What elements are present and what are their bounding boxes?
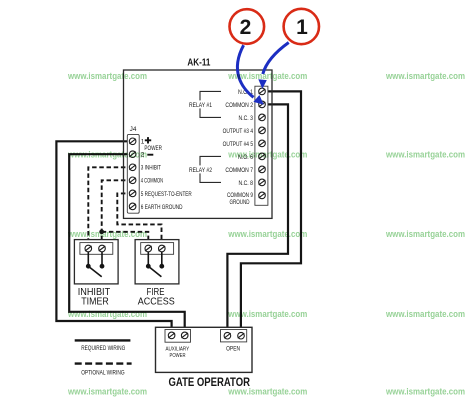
- J4 pin 5 screw: [129, 190, 136, 197]
- relay pin 9 screw: [259, 192, 266, 199]
- watermark row 4: [67, 309, 465, 319]
- svg-text:N.C. 8: N.C. 8: [239, 180, 254, 187]
- blue arrow from callout 2 to COMMON 2 terminal: [237, 45, 263, 105]
- relay pin 4 screw: [259, 127, 266, 134]
- svg-text:www.ismartgate.com: www.ismartgate.com: [67, 229, 147, 239]
- blue arrow from callout 1 to N.O. 1 terminal: [258, 43, 288, 89]
- wire W2: relay COMMON 2 to gate operator OPEN left terminal: [227, 104, 288, 335]
- svg-text:www.ismartgate.com: www.ismartgate.com: [385, 149, 465, 159]
- svg-text:www.ismartgate.com: www.ismartgate.com: [385, 71, 465, 81]
- relay pin 1 screw: [259, 88, 266, 95]
- callout circle 1: [284, 9, 319, 44]
- svg-text:www.ismartgate.com: www.ismartgate.com: [385, 386, 465, 396]
- FIRE ACCESS label: [138, 287, 175, 308]
- relay pin 5 screw: [259, 140, 266, 147]
- terminal strip J4: [127, 134, 139, 213]
- svg-text:www.ismartgate.com: www.ismartgate.com: [385, 309, 465, 319]
- svg-text:OUTPUT #3 4: OUTPUT #3 4: [223, 128, 254, 135]
- AK-11 enclosure box: [124, 70, 273, 218]
- svg-text:ACCESS: ACCESS: [138, 297, 175, 308]
- INHIBIT TIMER box: [74, 240, 118, 284]
- relay pin 3 screw: [259, 114, 266, 121]
- relay pin 9 label COMMON 9 GROUND: [227, 192, 253, 206]
- relay pin 2 screw: [259, 101, 266, 108]
- dashed wire D1: J4 pin3 INHIBIT to INHIBIT TIMER left terminal: [88, 167, 132, 248]
- FIRE ACCESS switch contacts: [146, 264, 151, 269]
- dashed wire D2: J4 pin4 COMMON to INHIBIT TIMER right terminal: [102, 180, 133, 248]
- svg-text:J4: J4: [130, 126, 137, 133]
- svg-text:REQUIRED WIRING: REQUIRED WIRING: [81, 345, 125, 352]
- dashed wire D2a: branch from junction to FIRE ACCESS left terminal: [102, 232, 149, 249]
- AUXILIARY POWER left screw: [168, 332, 175, 339]
- legend required-wiring sample line: [75, 339, 131, 341]
- relay #2 label: [186, 165, 213, 174]
- J4 pin 2 screw: [129, 151, 136, 158]
- relay pin 6 screw: [259, 153, 266, 160]
- AUXILIARY POWER label: [166, 347, 190, 360]
- wire W3: J4 pin1 +POWER to AUXILIARY POWER left terminal: [56, 141, 171, 335]
- GATE OPERATOR box: [156, 327, 253, 372]
- INHIBIT TIMER right terminal screw: [99, 245, 106, 252]
- svg-text:5 REQUEST-TO-ENTER: 5 REQUEST-TO-ENTER: [141, 191, 192, 198]
- relay #1 label: [186, 100, 213, 109]
- OPEN terminal strip: [221, 330, 247, 342]
- svg-text:COMMON 2: COMMON 2: [225, 102, 253, 109]
- svg-text:www.ismartgate.com: www.ismartgate.com: [67, 309, 147, 319]
- FIRE ACCESS right terminal screw: [159, 245, 166, 252]
- svg-text:OPEN: OPEN: [226, 346, 240, 353]
- svg-text:www.ismartgate.com: www.ismartgate.com: [227, 386, 307, 396]
- svg-text:www.ismartgate.com: www.ismartgate.com: [67, 149, 147, 159]
- svg-text:COMMON 7: COMMON 7: [225, 167, 253, 174]
- wire W1: relay N.O.1 to gate operator OPEN right terminal: [241, 91, 301, 335]
- svg-text:6 EARTH GROUND: 6 EARTH GROUND: [141, 204, 183, 211]
- INHIBIT TIMER switch stems: [88, 252, 102, 267]
- svg-text:RELAY #1: RELAY #1: [189, 102, 212, 109]
- INHIBIT TIMER terminal strip: [80, 243, 113, 255]
- FIRE ACCESS switch blade: [148, 266, 161, 277]
- svg-text:www.ismartgate.com: www.ismartgate.com: [227, 149, 307, 159]
- legend optional-wiring sample line: [75, 362, 132, 364]
- AUXILIARY POWER right screw: [181, 332, 188, 339]
- relay #1 bracket: [200, 91, 221, 117]
- svg-text:RELAY #2: RELAY #2: [189, 167, 212, 174]
- svg-text:3 INHIBIT: 3 INHIBIT: [141, 165, 161, 172]
- svg-text:GROUND: GROUND: [230, 199, 250, 206]
- J4 pin 6 screw: [129, 203, 136, 210]
- svg-text:OUTPUT #4 5: OUTPUT #4 5: [223, 141, 254, 148]
- INHIBIT TIMER label: [78, 287, 111, 308]
- J4 pin 2 label (-): [141, 152, 154, 159]
- FIRE ACCESS switch stems: [148, 252, 162, 267]
- wire W4: J4 pin2 -POWER to AUXILIARY POWER right terminal: [69, 154, 185, 335]
- svg-text:1: 1: [296, 16, 308, 39]
- watermark row 1: [67, 71, 465, 81]
- watermark row 5: [67, 386, 465, 396]
- svg-text:4 COMMON: 4 COMMON: [141, 178, 164, 185]
- svg-text:2: 2: [240, 16, 252, 39]
- relay #2 bracket: [200, 156, 221, 182]
- FIRE ACCESS terminal strip: [141, 243, 174, 255]
- svg-text:POWER: POWER: [144, 145, 162, 152]
- relay pin 8 screw: [259, 179, 266, 186]
- J4 pin 1 screw: [129, 138, 136, 145]
- FIRE ACCESS box: [135, 240, 179, 284]
- FIRE ACCESS left terminal screw: [145, 245, 152, 252]
- INHIBIT TIMER switch contacts: [86, 264, 91, 269]
- svg-text:www.ismartgate.com: www.ismartgate.com: [227, 71, 307, 81]
- dashed wire D3: J4 pin5 REQUEST-TO-ENTER to FIRE ACCESS right terminal: [117, 193, 161, 248]
- watermark row 3: [67, 229, 465, 239]
- svg-text:www.ismartgate.com: www.ismartgate.com: [227, 229, 307, 239]
- watermark row 2: [67, 149, 465, 159]
- svg-text:N.C. 3: N.C. 3: [239, 115, 254, 122]
- OPEN left screw: [224, 332, 231, 339]
- svg-text:TIMER: TIMER: [81, 297, 108, 308]
- svg-text:www.ismartgate.com: www.ismartgate.com: [385, 229, 465, 239]
- callout circle 2: [230, 9, 265, 44]
- svg-text:www.ismartgate.com: www.ismartgate.com: [67, 386, 147, 396]
- svg-text:AUXILIARY: AUXILIARY: [166, 347, 190, 353]
- junction dot on COMMON branch: [99, 229, 104, 234]
- relay pin 7 screw: [259, 166, 266, 173]
- J4 pin 4 screw: [129, 177, 136, 184]
- J4 pin 3 screw: [129, 164, 136, 171]
- svg-text:www.ismartgate.com: www.ismartgate.com: [227, 309, 307, 319]
- J4 pin 1 label (+ POWER): [141, 137, 162, 152]
- svg-text:OPTIONAL WIRING: OPTIONAL WIRING: [81, 369, 124, 376]
- svg-text:POWER: POWER: [170, 353, 186, 359]
- INHIBIT TIMER left terminal screw: [85, 245, 92, 252]
- INHIBIT TIMER switch blade: [88, 266, 101, 277]
- AUXILIARY POWER terminal strip: [165, 330, 191, 343]
- svg-text:www.ismartgate.com: www.ismartgate.com: [67, 71, 147, 81]
- relay output terminal strip: [255, 86, 268, 205]
- svg-text:COMMON 9: COMMON 9: [227, 192, 253, 199]
- OPEN right screw: [238, 332, 245, 339]
- svg-text:AK-11: AK-11: [187, 57, 210, 69]
